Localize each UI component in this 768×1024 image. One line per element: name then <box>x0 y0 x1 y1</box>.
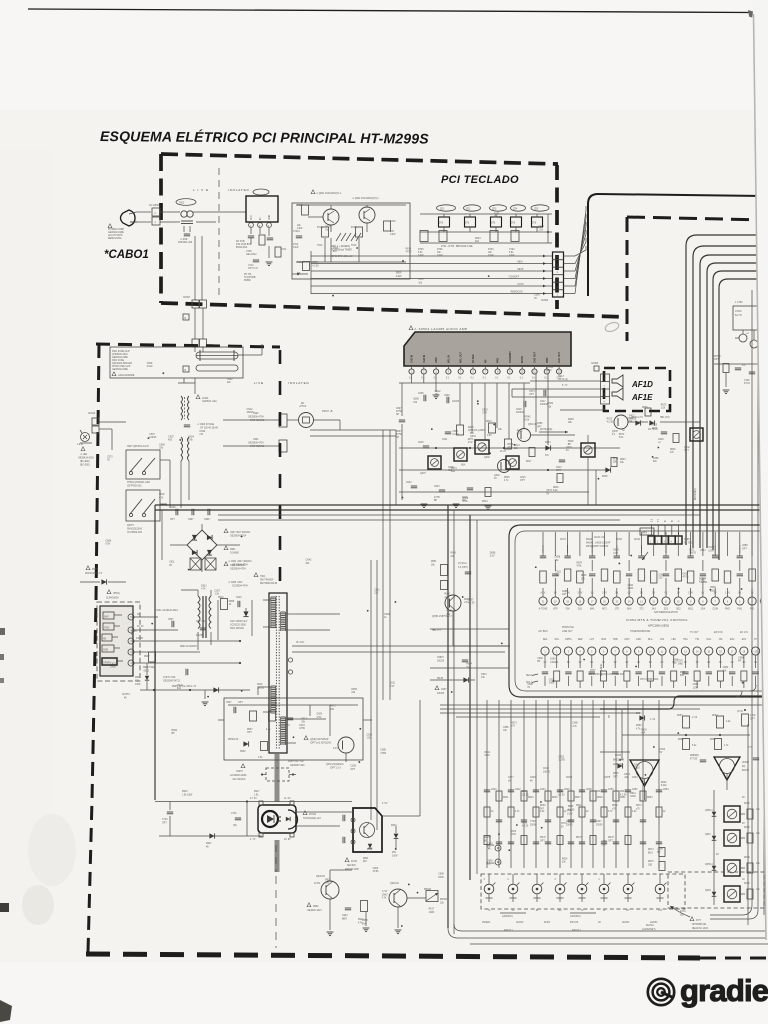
junction dot C946 right <box>292 773 294 775</box>
IC050 pin 11 <box>534 366 536 369</box>
svg-text:EX2: EX2 <box>730 639 735 641</box>
svg-text:R624: R624 <box>562 859 568 861</box>
junction dot scatter <box>477 403 479 405</box>
svg-text:2. 7V: 2. 7V <box>250 839 256 841</box>
svg-text:LF901: LF901 <box>202 398 209 400</box>
fuse secondary symbol <box>196 365 238 371</box>
svg-text:BP: BP <box>657 852 661 854</box>
wire error amp right <box>382 815 420 817</box>
resistor R624 <box>485 488 491 497</box>
T901 lead left 4 <box>263 711 271 713</box>
svg-text:60A: 60A <box>177 687 182 690</box>
junction dot scatter <box>241 536 243 538</box>
svg-text:0V: 0V <box>137 614 140 616</box>
svg-text:3D1: 3D1 <box>664 609 669 611</box>
LIVE ISOLATED divider dashed lower <box>279 350 282 590</box>
svg-text:D658: D658 <box>362 920 368 922</box>
svg-text:R679: R679 <box>406 248 412 250</box>
svg-text:R674: R674 <box>648 849 654 851</box>
wire row c <box>399 491 589 493</box>
capacitor C607 <box>399 419 405 421</box>
junction dot scatter <box>148 437 150 439</box>
svg-text:INPUT2: INPUT2 <box>570 922 579 924</box>
svg-text:C608: C608 <box>418 393 424 395</box>
wire header arrows <box>642 552 648 560</box>
svg-text:C90? 301? 400VAC: C90? 301? 400VAC <box>230 531 251 534</box>
svg-text:C622: C622 <box>406 482 412 484</box>
svg-text:OPT: OPT <box>170 519 175 521</box>
T901 secondary winding upper <box>281 611 286 613</box>
IC054 top pin 4 <box>748 597 756 605</box>
svg-text:R672: R672 <box>661 404 667 406</box>
svg-text:R640: R640 <box>540 805 546 807</box>
connector CN901 pin 1 <box>152 217 160 225</box>
svg-text:HEXI: HEXI <box>517 261 523 263</box>
jack column lower box 9 <box>590 836 596 845</box>
svg-text:1N60: 1N60 <box>549 682 555 684</box>
svg-text:C580?: C580? <box>437 657 444 659</box>
svg-text:OPT: OPT <box>520 480 525 482</box>
regulator IC901 body <box>246 196 278 222</box>
junction dot scatter <box>395 848 397 850</box>
jack pin stubs 3 <box>536 894 538 902</box>
svg-text:2V: 2V <box>640 593 643 595</box>
ladder mid rail <box>420 231 552 233</box>
connector CN904 body <box>553 252 564 297</box>
wire snubber <box>217 600 219 640</box>
svg-text:GE06102-029E: GE06102-029E <box>112 357 128 359</box>
resistor R665 box <box>715 739 722 750</box>
svg-text:LOT: LOT <box>590 639 595 641</box>
svg-text:Q602: Q602 <box>494 475 500 477</box>
svg-text:PRE: PRE <box>497 358 500 363</box>
svg-text:C573: C573 <box>561 823 567 825</box>
IC050 LA4485 body <box>404 332 571 366</box>
wire T902 to regulator <box>193 211 246 213</box>
IC054 bottom pin 3 <box>564 647 572 655</box>
jack column capacitor 2 <box>508 789 514 791</box>
header CN055 body <box>648 536 682 544</box>
svg-text:Q632: Q632 <box>684 447 690 449</box>
LED D910 symbol <box>81 433 90 442</box>
svg-text:C902: C902 <box>253 413 259 415</box>
bus bottom loop outer <box>448 928 768 938</box>
regulator IC901 label oval <box>253 189 269 195</box>
diode D702 body <box>465 217 476 227</box>
svg-text:2.5V: 2.5V <box>468 442 473 444</box>
CN904 pin 2 <box>553 289 564 291</box>
diode D660 <box>639 715 644 720</box>
diode label oval ZD5 <box>531 205 549 211</box>
jack column resistor 14 <box>656 807 662 817</box>
junction dot scatter <box>653 746 655 748</box>
svg-text:C609: C609 <box>444 395 450 397</box>
jack column capacitor 14 <box>656 789 662 791</box>
svg-text:BP: BP <box>738 661 742 663</box>
IC054 bottom pin 2 <box>553 647 561 655</box>
IC054 bottom pin 8 <box>623 647 631 655</box>
svg-text:D946? B1? OR: D946? B1? OR <box>288 761 304 763</box>
svg-text:C652: C652 <box>632 789 638 791</box>
resistor R712 <box>322 227 329 237</box>
svg-text:TCLR700B: TCLR700B <box>244 277 256 279</box>
capacitor C611 <box>445 431 451 433</box>
junction dots under amp <box>435 447 437 449</box>
svg-text:SLRH1665A: SLRH1665A <box>106 597 119 600</box>
svg-text:1/2W: 1/2W <box>550 662 556 664</box>
vertical bus pair d <box>389 430 391 700</box>
jack column capacitor 12 <box>625 789 631 791</box>
junction dot scatter <box>493 424 495 426</box>
CN904 pin 3 <box>553 281 564 283</box>
svg-text:OPT 0.47: OPT 0.47 <box>248 268 259 270</box>
junction dot scatter <box>367 610 369 612</box>
svg-text:60A: 60A <box>680 674 685 677</box>
wires opamp area <box>621 710 623 760</box>
jack column resistor 8 <box>579 807 585 817</box>
svg-text:R709: R709 <box>390 221 396 223</box>
snubber diode D903 <box>243 611 248 616</box>
jack pin stubs 1 <box>488 894 490 902</box>
capacitor C619 <box>423 445 429 447</box>
svg-text:C709: C709 <box>246 251 252 253</box>
svg-text:PD2: PD2 <box>750 609 755 611</box>
svg-text:0V: 0V <box>534 298 537 300</box>
diode D703 body <box>491 217 502 227</box>
svg-text:C954: C954 <box>342 915 348 917</box>
svg-text:-0612: -0612 <box>143 671 150 673</box>
svg-text:C901: C901 <box>253 439 259 441</box>
IC750 regulator box top right <box>733 306 766 330</box>
snubber capacitor C910 <box>237 601 239 607</box>
pin column riser 11 <box>677 532 679 556</box>
svg-text:C567: C567 <box>441 689 447 691</box>
svg-text:R651: R651 <box>620 797 626 799</box>
jack pin stubs 5 <box>581 894 583 902</box>
svg-text:QH06102-0041: QH06102-0041 <box>112 354 128 356</box>
label IC941 SE130N <box>345 858 349 862</box>
wire down to bundle <box>587 457 589 505</box>
svg-text:C619: C619 <box>366 734 372 736</box>
svg-text:D658: D658 <box>487 860 493 862</box>
jack entry wire 1 <box>488 874 490 884</box>
svg-text:REMOCON: REMOCON <box>511 291 523 293</box>
junction dot scatter <box>488 275 490 277</box>
svg-text:60A: 60A <box>475 240 480 243</box>
svg-text:4V: 4V <box>742 662 745 664</box>
jack column capacitor 3 <box>521 819 527 821</box>
svg-text:MUTE: MUTE <box>521 356 524 363</box>
right side long vertical bus b <box>757 288 759 910</box>
photocoupler PC941 body <box>258 805 296 833</box>
svg-text:L.E.B: L.E.B <box>77 444 83 446</box>
svg-text:INPUT 2: INPUT 2 <box>572 930 581 932</box>
svg-text:(W): (W) <box>233 825 237 827</box>
CN906 pin 2 <box>601 388 610 390</box>
svg-text:TV OUT: TV OUT <box>690 632 699 634</box>
capacitor C666 <box>700 759 706 761</box>
svg-text:R630: R630 <box>581 575 587 577</box>
photocoupler LED diode <box>267 815 274 823</box>
diode D902 body <box>101 579 106 584</box>
label C911 <box>224 562 228 566</box>
bus line nest 2 <box>693 246 768 548</box>
svg-text:D607: D607 <box>396 431 402 433</box>
svg-text:(IC652: (IC652 <box>742 762 750 764</box>
label R952 <box>307 903 311 907</box>
wire LED to relay <box>99 421 126 423</box>
zener Q665-3 #10 <box>712 866 717 871</box>
svg-text:0V: 0V <box>716 854 719 856</box>
svg-text:C611: C611 <box>689 549 695 551</box>
junction dot scatter <box>619 759 621 761</box>
junction dot scatter <box>516 824 518 826</box>
svg-text:16. 4V: 16. 4V <box>137 626 144 628</box>
junction dot scatter <box>451 691 453 693</box>
line filter LF902 winding left <box>181 437 183 461</box>
svg-text:100/25: 100/25 <box>437 693 445 695</box>
header CN055 leads <box>650 525 652 536</box>
svg-text:R645: R645 <box>552 797 558 799</box>
jack column resistor 2 <box>508 807 514 817</box>
svg-text:OPT: OPT <box>162 823 167 825</box>
gradiente logo G mark <box>648 979 674 1005</box>
svg-text:NP: NP <box>396 414 400 416</box>
svg-text:⚠ C905 .0047: ⚠ C905 .0047 <box>228 581 243 584</box>
svg-text:1/2W: 1/2W <box>708 550 714 552</box>
label LED <box>81 447 85 451</box>
zener Q664 #4 <box>712 892 717 897</box>
highway line 4 <box>218 519 620 521</box>
svg-text:C91? 2000V 2kV: C91? 2000V 2kV <box>230 621 248 623</box>
sensor pad SHP <box>103 612 114 619</box>
input jack 7 <box>623 884 633 894</box>
IC054 top pin 6 <box>723 597 731 605</box>
junction dot scatter <box>207 696 209 698</box>
svg-text:D658: D658 <box>490 552 496 554</box>
IC050 pin 9 <box>509 366 511 369</box>
bus line nest 1 <box>686 235 768 545</box>
svg-text:Q501 2SA933AS: Q501 2SA933AS <box>326 763 344 766</box>
svg-text:D502: D502 <box>240 751 246 753</box>
svg-text:C501 GC20120-3614: C501 GC20120-3614 <box>156 610 179 612</box>
svg-text:I S O L A T E D: I S O L A T E D <box>228 188 250 192</box>
svg-text:D658: D658 <box>229 601 235 603</box>
svg-text:1/2.50: 1/2.50 <box>558 795 565 797</box>
svg-text:C?40: C?40 <box>162 819 168 821</box>
jack column capacitor 7 <box>568 819 574 821</box>
svg-text:POWER CORD: POWER CORD <box>108 229 124 231</box>
thick bus wire to top right <box>588 194 768 296</box>
svg-text:R673: R673 <box>511 722 517 724</box>
svg-text:⚠ C903 271VAE: ⚠ C903 271VAE <box>197 423 215 426</box>
svg-text:R666(B): R666(B) <box>690 755 699 757</box>
thick trace below coupler <box>275 840 280 872</box>
svg-text:GE06102-029E: GE06102-029E <box>112 369 128 371</box>
CN904 pin 6 <box>553 259 564 261</box>
vertical drops cluster <box>459 383 461 425</box>
svg-text:PR4?: PR4? <box>576 837 582 839</box>
error amp internal zener <box>368 844 372 848</box>
label D620 cluster <box>635 420 640 425</box>
IC050 pin 12 <box>546 366 548 369</box>
input jack 2 <box>508 884 518 894</box>
transistor Q940a <box>321 881 339 899</box>
svg-text:COM: COM <box>713 609 718 611</box>
svg-text:R617: R617 <box>567 810 573 812</box>
svg-text:D64?: D64? <box>620 791 626 793</box>
svg-text:R624: R624 <box>482 501 488 503</box>
PCI TECLADO dashed border bottom <box>161 303 627 317</box>
thick trace below connector <box>275 754 280 802</box>
svg-text:(Q50) KIA7045AP: (Q50) KIA7045AP <box>310 738 329 741</box>
svg-text:AUDIO: AUDIO <box>650 921 657 924</box>
svg-text:CN410: CN410 <box>546 367 554 369</box>
svg-text:OPT: OPT <box>350 769 355 771</box>
svg-text:R615: R615 <box>652 425 658 427</box>
junction dot scatter <box>741 588 743 590</box>
speaker AF1E symbol <box>612 388 623 400</box>
svg-text:GRC: GRC <box>636 639 641 641</box>
svg-text:47/50: 47/50 <box>634 768 640 770</box>
junction dot scatter <box>358 761 360 763</box>
signal wire HEXP <box>311 270 552 272</box>
svg-text:C609: C609 <box>534 295 540 297</box>
junction dot scatter <box>402 497 404 499</box>
svg-text:C640: C640 <box>227 379 233 381</box>
vertical bus pair c <box>382 430 384 700</box>
jack column lower box 13 <box>640 841 646 843</box>
IC050 pin 8 <box>497 366 499 369</box>
svg-text:2.2/50: 2.2/50 <box>452 434 459 436</box>
IC050 pin 6 <box>472 366 474 369</box>
bottom row components <box>542 671 548 673</box>
svg-text:R673: R673 <box>468 439 474 441</box>
svg-text:C684: C684 <box>693 684 699 686</box>
svg-text:C906: C906 <box>170 507 176 509</box>
svg-text:R509: R509 <box>396 273 402 275</box>
pin column riser 12 <box>690 532 692 556</box>
resistor D664 box <box>717 716 724 728</box>
svg-text:C910: C910 <box>236 597 242 599</box>
diode D947 <box>209 833 214 838</box>
diode D502 <box>243 741 248 746</box>
resistor R508 <box>269 711 276 721</box>
svg-text:C573: C573 <box>546 490 552 492</box>
svg-text:PCI TECLADO: PCI TECLADO <box>441 174 519 186</box>
svg-text:C628: C628 <box>658 439 664 441</box>
svg-text:D502: D502 <box>482 409 488 411</box>
paper shading left edge <box>0 150 50 910</box>
line filter LF901 winding left <box>181 396 183 420</box>
wire T901 leads <box>197 590 199 596</box>
svg-text:R509: R509 <box>171 730 177 732</box>
svg-text:R624: R624 <box>367 849 373 851</box>
wire q940 grounds <box>329 899 331 930</box>
zener D943 <box>394 834 399 839</box>
svg-text:C688: C688 <box>380 750 386 752</box>
scan top edge line <box>28 9 751 13</box>
svg-text:AF1E: AF1E <box>631 393 653 402</box>
junction dot scatter <box>535 566 537 568</box>
signal wire CN904 pin 6 <box>311 255 552 257</box>
svg-text:D613: D613 <box>301 718 307 720</box>
arrowhead 2 <box>543 285 546 288</box>
svg-text:C666: C666 <box>537 658 543 660</box>
svg-text:R672: R672 <box>612 805 618 807</box>
svg-text:2.5V: 2.5V <box>317 717 322 719</box>
T901 lead left 1 <box>263 599 271 601</box>
svg-text:CN905: CN905 <box>591 363 599 365</box>
svg-text:R509: R509 <box>710 587 716 589</box>
svg-text:R705: R705 <box>418 249 424 251</box>
svg-text:C?40: C?40 <box>231 813 237 815</box>
svg-text:C622: C622 <box>110 663 116 665</box>
svg-text:MPX(B)/MP?-1502XP: MPX(B)/MP?-1502XP <box>586 546 609 548</box>
wire base Q901 <box>308 216 323 218</box>
svg-text:D619: D619 <box>546 370 552 372</box>
svg-text:Q635: Q635 <box>612 431 618 433</box>
svg-text:0V: 0V <box>169 565 172 567</box>
top pin row resistors <box>540 571 547 583</box>
LF901 core <box>184 397 186 419</box>
svg-text:C509: C509 <box>284 725 290 727</box>
svg-text:CN42: CN42 <box>708 547 715 549</box>
svg-text:R708: R708 <box>351 227 357 229</box>
svg-text:BP: BP <box>171 733 175 735</box>
PCI TECLADO dashed border right <box>555 165 559 309</box>
svg-text:ZD1: ZD1 <box>440 209 445 211</box>
junction dot scatter <box>678 588 680 590</box>
zener Q66? <box>712 836 717 841</box>
IC054 top pin 12 <box>650 597 658 605</box>
top lines bundle <box>440 704 768 706</box>
input jack 6 <box>599 884 609 894</box>
pin column riser 7 <box>628 532 630 556</box>
diode D505 <box>213 687 218 692</box>
diode label oval ZD1 <box>437 205 456 211</box>
capacitor C711 <box>267 237 273 239</box>
pin column riser 13 <box>702 532 704 556</box>
label REAR AV JACK <box>690 917 694 921</box>
svg-text:R703: R703 <box>488 249 494 251</box>
resistor R615 <box>457 425 464 435</box>
junction ladder right <box>547 231 549 233</box>
remote sensor body <box>100 606 133 676</box>
wire coupler to error amp b <box>296 825 340 827</box>
timer hatch symbol <box>336 233 341 241</box>
resistor R702 <box>302 205 309 215</box>
svg-text:NP: NP <box>396 437 400 439</box>
svg-text:D620: D620 <box>257 684 263 686</box>
svg-text:C?0A: C?0A <box>530 820 536 823</box>
zener D504 <box>145 676 149 680</box>
svg-text:HBL V??: HBL V?? <box>432 630 442 632</box>
svg-text:R675: R675 <box>648 861 654 863</box>
svg-text:(OPT1)+3 /QP11243: (OPT1)+3 /QP11243 <box>310 743 332 745</box>
svg-text:5V: 5V <box>615 593 618 595</box>
resistor R623 <box>611 458 617 467</box>
junction coupler left <box>246 800 248 802</box>
capacitor C943 <box>342 815 344 821</box>
junction dot scatter <box>401 925 403 927</box>
transistor Q901 <box>323 209 339 225</box>
input jack 1 <box>484 884 494 894</box>
resistor C664 box <box>742 714 749 726</box>
step wire above opamps <box>600 696 768 709</box>
paper lighter top area <box>0 0 768 110</box>
svg-text:CM?6: CM?6 <box>566 777 573 779</box>
